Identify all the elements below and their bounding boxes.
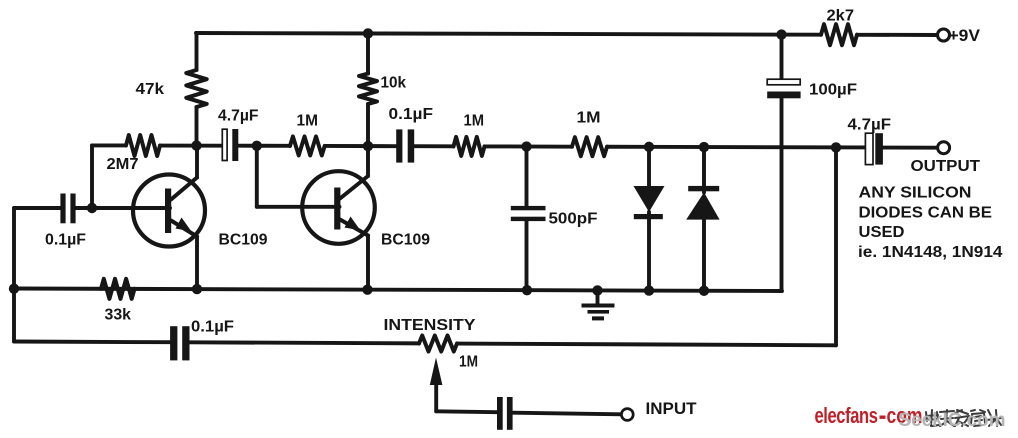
svg-text:1M: 1M xyxy=(577,110,601,127)
svg-text:INPUT: INPUT xyxy=(646,399,698,418)
svg-text:1M: 1M xyxy=(459,354,478,371)
svg-text:DIODES CAN BE: DIODES CAN BE xyxy=(859,205,993,222)
svg-text:OUTPUT: OUTPUT xyxy=(911,158,981,175)
svg-text:4.7µF: 4.7µF xyxy=(218,108,259,125)
svg-text:elecfans: elecfans xyxy=(815,403,878,428)
svg-text:ie. 1N4148, 1N914: ie. 1N4148, 1N914 xyxy=(858,244,1003,261)
svg-text:1M: 1M xyxy=(464,113,485,130)
svg-text:0.1µF: 0.1µF xyxy=(191,319,234,336)
svg-text:SeekIC.com: SeekIC.com xyxy=(899,410,1006,431)
svg-text:ANY SILICON: ANY SILICON xyxy=(859,185,972,202)
svg-text:+9V: +9V xyxy=(949,26,981,45)
svg-text:47k: 47k xyxy=(136,81,165,98)
svg-text:0.1µF: 0.1µF xyxy=(389,106,434,123)
svg-text:4.7µF: 4.7µF xyxy=(848,117,892,134)
svg-text:1M: 1M xyxy=(297,113,319,130)
svg-text:100µF: 100µF xyxy=(809,82,857,99)
svg-text:INTENSITY: INTENSITY xyxy=(384,317,476,334)
svg-text:10k: 10k xyxy=(381,75,407,92)
svg-text:500pF: 500pF xyxy=(549,211,598,228)
svg-text:BC109: BC109 xyxy=(381,232,430,249)
svg-text:2M7: 2M7 xyxy=(107,156,139,173)
svg-text:33k: 33k xyxy=(105,307,132,324)
svg-text:USED: USED xyxy=(859,224,905,241)
svg-text:0.1µF: 0.1µF xyxy=(45,232,86,249)
svg-text:2k7: 2k7 xyxy=(827,8,855,25)
svg-text:BC109: BC109 xyxy=(219,232,268,249)
